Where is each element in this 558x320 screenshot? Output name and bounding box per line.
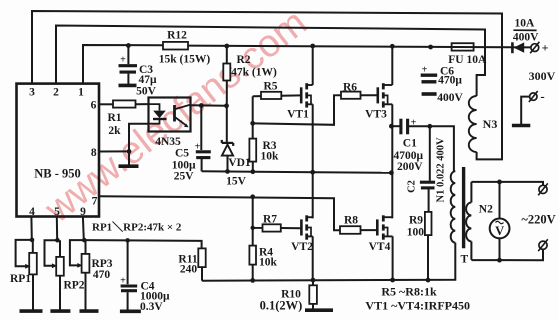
svg-text:R5: R5 bbox=[263, 80, 277, 92]
svg-text:8: 8 bbox=[91, 147, 97, 159]
svg-text:400V: 400V bbox=[437, 92, 463, 104]
svg-text:5: 5 bbox=[54, 206, 60, 218]
svg-text:RP1＼RP2:47k × 2: RP1＼RP2:47k × 2 bbox=[92, 221, 182, 234]
svg-text:400V: 400V bbox=[513, 32, 539, 44]
svg-text:15V: 15V bbox=[226, 176, 247, 188]
svg-text:6: 6 bbox=[91, 100, 97, 112]
svg-text:R7: R7 bbox=[263, 213, 277, 225]
svg-text:2: 2 bbox=[53, 87, 59, 99]
svg-text:9: 9 bbox=[80, 206, 86, 218]
svg-text:RP1: RP1 bbox=[10, 273, 31, 285]
svg-text:R6: R6 bbox=[343, 81, 357, 93]
svg-text:25V: 25V bbox=[174, 171, 195, 183]
svg-text:+: + bbox=[195, 142, 201, 153]
svg-text:+: + bbox=[411, 118, 417, 129]
svg-text:-: - bbox=[540, 88, 544, 103]
svg-text:~220V: ~220V bbox=[521, 213, 555, 227]
svg-text:300V: 300V bbox=[529, 69, 556, 83]
svg-text:N2: N2 bbox=[479, 204, 493, 216]
svg-text:VT1 ~VT4:IRFP450: VT1 ~VT4:IRFP450 bbox=[365, 299, 470, 313]
svg-text:NB - 950: NB - 950 bbox=[34, 167, 81, 181]
svg-text:VT2: VT2 bbox=[291, 241, 313, 253]
svg-text:0.1(2W): 0.1(2W) bbox=[260, 298, 303, 312]
svg-text:0.3V: 0.3V bbox=[140, 301, 163, 313]
svg-text:C2: C2 bbox=[407, 180, 418, 193]
svg-text:R1: R1 bbox=[107, 112, 121, 124]
svg-text:4N35: 4N35 bbox=[155, 136, 181, 148]
svg-text:R12: R12 bbox=[167, 30, 187, 42]
svg-text:V: V bbox=[495, 224, 504, 238]
svg-text:47μ: 47μ bbox=[138, 74, 157, 86]
svg-text:VT3: VT3 bbox=[365, 109, 387, 121]
svg-text:VD1: VD1 bbox=[228, 157, 251, 169]
svg-text:240: 240 bbox=[180, 264, 198, 276]
svg-text:15k (15W): 15k (15W) bbox=[159, 54, 211, 66]
svg-text:10k: 10k bbox=[261, 151, 280, 163]
svg-text:2k: 2k bbox=[108, 125, 121, 137]
svg-text:10k: 10k bbox=[259, 257, 278, 269]
svg-text:4: 4 bbox=[29, 206, 35, 218]
svg-text:N3: N3 bbox=[483, 117, 498, 131]
svg-text:T: T bbox=[460, 254, 468, 266]
svg-text:VT1: VT1 bbox=[287, 109, 309, 121]
svg-text:47k (1W): 47k (1W) bbox=[231, 67, 277, 79]
svg-text:3: 3 bbox=[29, 87, 35, 99]
svg-text:R8: R8 bbox=[344, 214, 358, 226]
svg-text:R5 ~R8:1k: R5 ~R8:1k bbox=[381, 284, 437, 298]
svg-text:50V: 50V bbox=[136, 86, 157, 98]
svg-text:7: 7 bbox=[92, 196, 98, 208]
svg-text:+: + bbox=[542, 40, 549, 54]
svg-text:C5: C5 bbox=[175, 148, 189, 160]
svg-text:+: + bbox=[120, 276, 126, 287]
svg-text:100: 100 bbox=[407, 227, 425, 239]
svg-text:C1: C1 bbox=[403, 138, 417, 150]
svg-text:RP2: RP2 bbox=[63, 280, 84, 292]
svg-text:R2: R2 bbox=[236, 54, 250, 66]
svg-text:FU 10A: FU 10A bbox=[448, 54, 487, 66]
svg-text:R9: R9 bbox=[409, 215, 423, 227]
svg-text:10A: 10A bbox=[514, 18, 535, 30]
svg-text:470μ: 470μ bbox=[438, 75, 462, 87]
svg-text:+: + bbox=[120, 55, 126, 66]
svg-text:VT4: VT4 bbox=[369, 241, 391, 253]
svg-text:1: 1 bbox=[78, 87, 84, 99]
svg-text:470: 470 bbox=[93, 269, 111, 281]
svg-text:+: + bbox=[422, 65, 428, 76]
svg-text:200V: 200V bbox=[397, 161, 423, 173]
svg-text:N1 0.022 400V: N1 0.022 400V bbox=[436, 137, 447, 202]
